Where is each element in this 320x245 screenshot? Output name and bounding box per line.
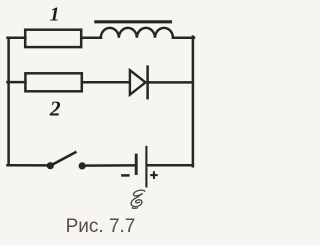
- wire right rail: [192, 37, 195, 167]
- wire coil to right rail: [173, 36, 194, 39]
- inductor L coil: [101, 28, 173, 38]
- wire battery to right rail: [148, 164, 193, 167]
- wire diode to right rail: [148, 81, 193, 84]
- inductor core bar: [96, 20, 171, 23]
- diode VD triangle: [130, 70, 146, 95]
- battery minus label: [121, 174, 130, 177]
- switch node dot right: [79, 162, 86, 169]
- battery plus label: [150, 171, 158, 179]
- wire top row left: [8, 36, 26, 39]
- wire resistor1 to coil: [81, 36, 101, 39]
- wire bottom left: [8, 164, 49, 167]
- switch node dot left: [47, 162, 54, 169]
- svg-text:1: 1: [50, 4, 60, 26]
- EMF script-E label: [131, 190, 145, 208]
- resistor 2: [25, 73, 81, 91]
- wire resistor2 to diode: [82, 81, 130, 84]
- svg-text:Рис. 7.7: Рис. 7.7: [66, 216, 136, 237]
- wire row2 left: [8, 81, 26, 84]
- wire left rail: [7, 38, 10, 166]
- svg-text:2: 2: [49, 97, 61, 121]
- diode cathode bar: [146, 67, 149, 99]
- battery negative plate (short thick): [135, 155, 138, 173]
- resistor 1: [25, 30, 81, 47]
- battery positive plate (tall thin): [145, 147, 147, 187]
- switch K lever: [50, 152, 75, 165]
- wire switch to battery: [84, 164, 135, 167]
